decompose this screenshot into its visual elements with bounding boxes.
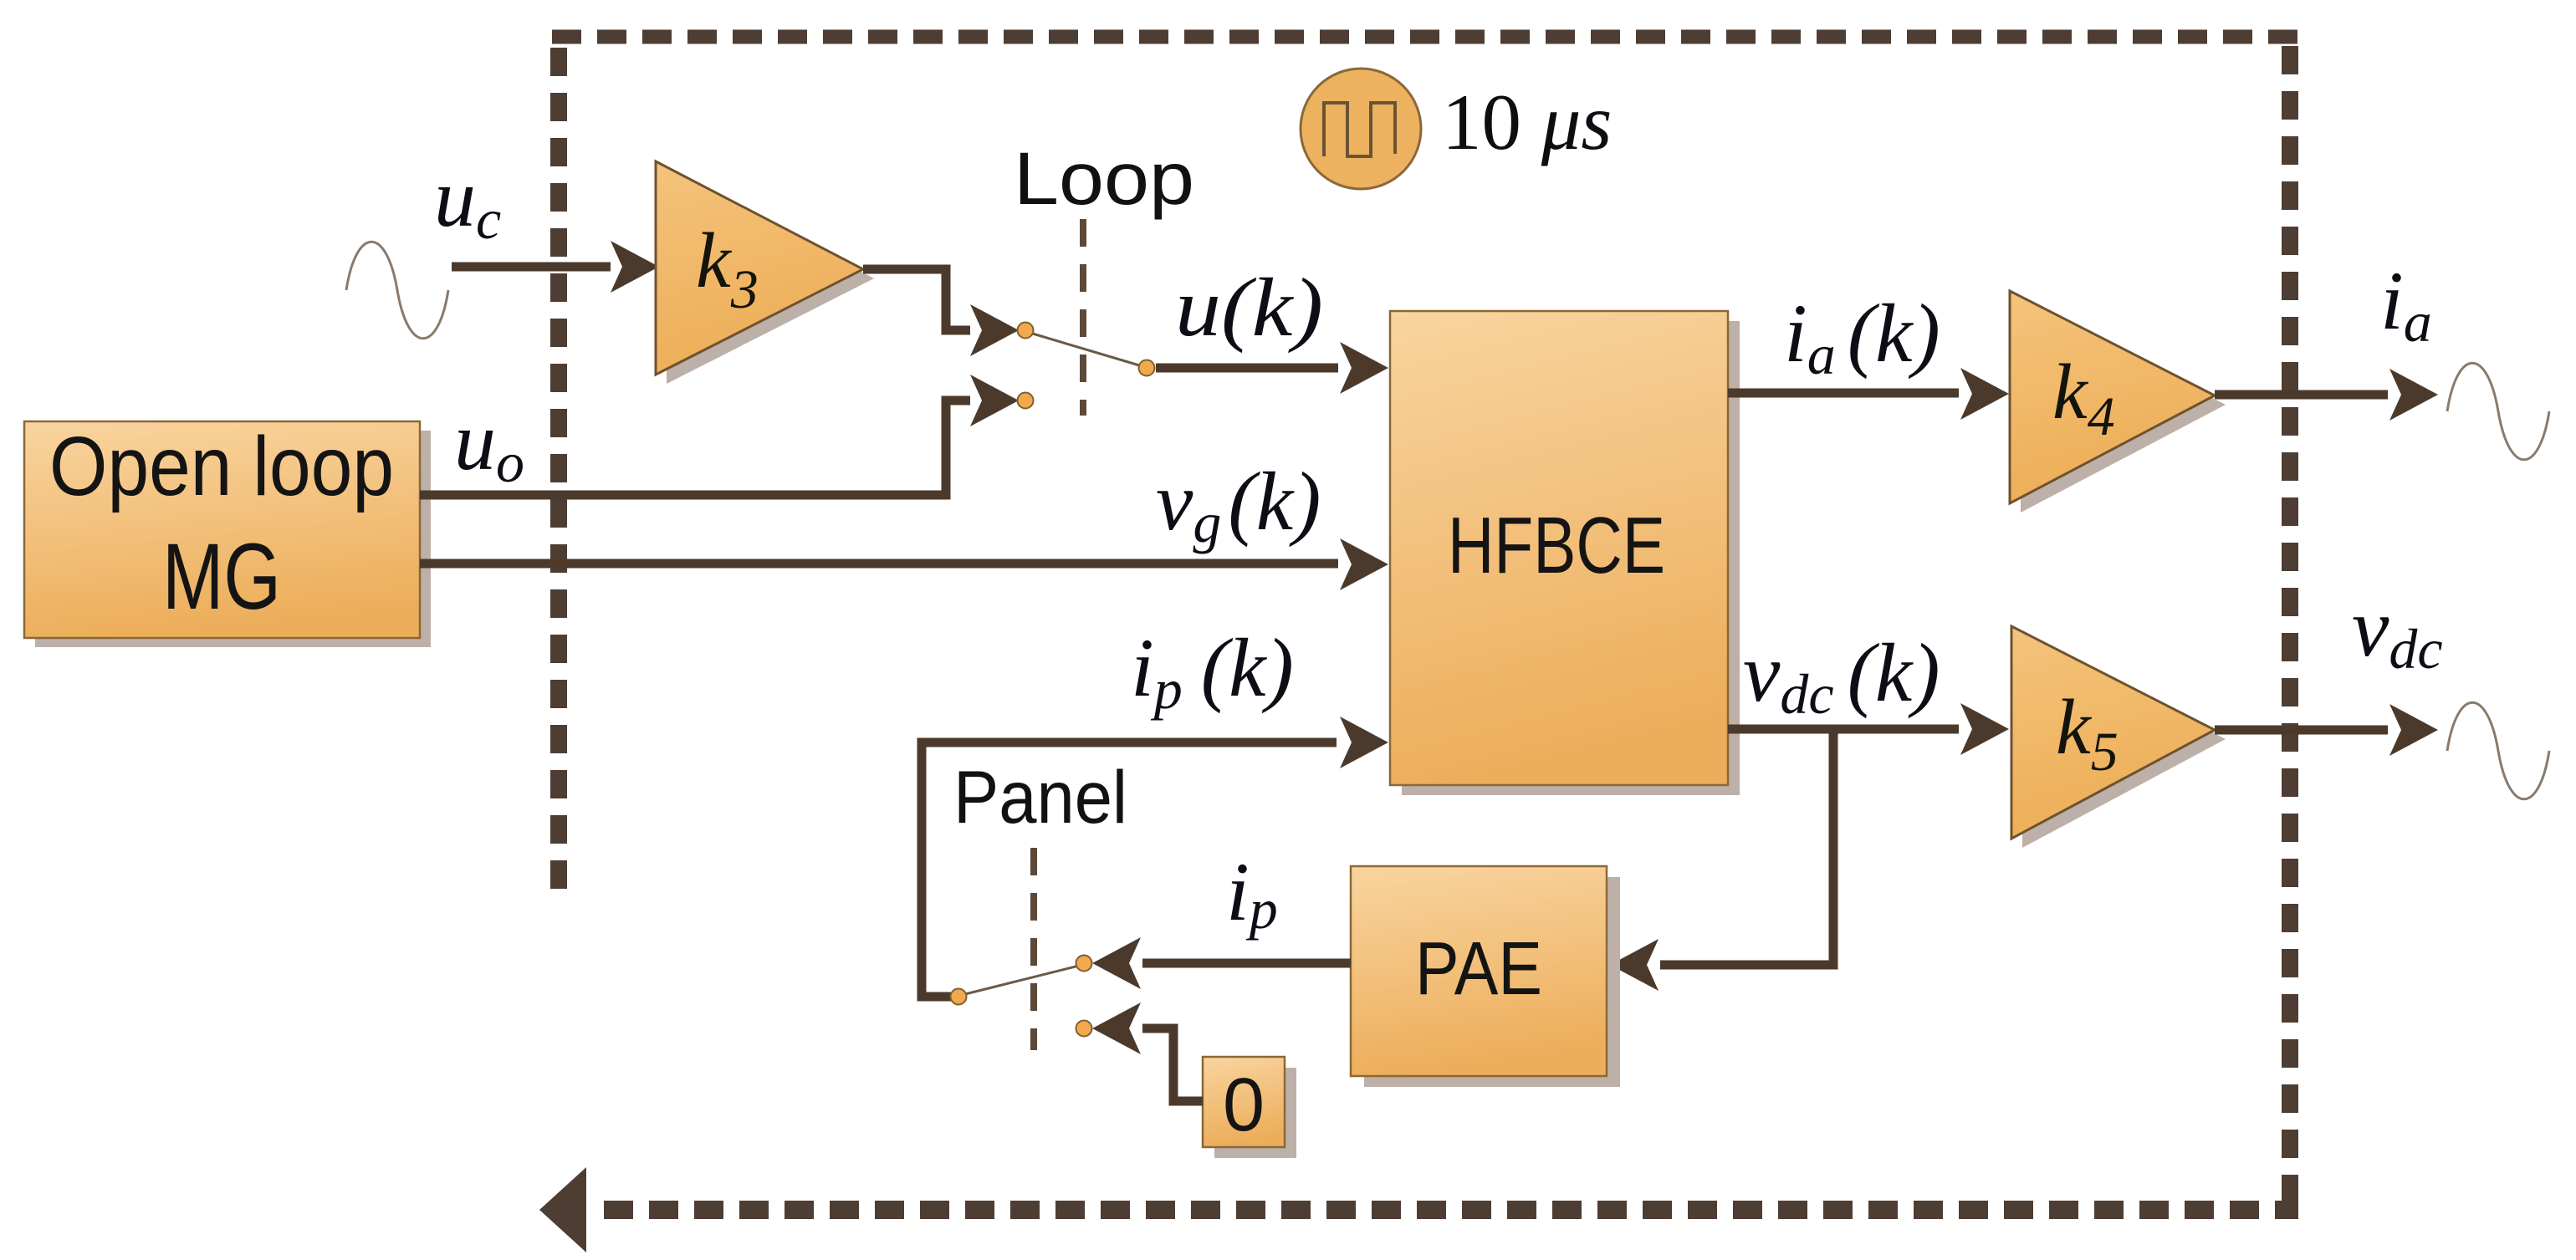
dashed digital-domain border (top edge) (552, 30, 2298, 44)
sine symbol at v_dc output (2447, 702, 2549, 799)
label Loop (1014, 136, 1194, 220)
Loop switch throw node (from k3) (1018, 323, 1034, 339)
label v_g(k) (1156, 455, 1321, 554)
wire v_dc(k) from HFBCE to k5 (1728, 703, 2009, 755)
label i_p (1226, 845, 1278, 941)
label v_dc (2352, 581, 2443, 681)
dashed digital-domain border (bottom edge, feedback) (594, 1201, 2298, 1219)
label u_c (434, 151, 501, 251)
wire i_a(k) from HFBCE to k4 (1728, 368, 2009, 420)
Loop switch common node (1139, 360, 1155, 376)
svg-text:uo: uo (454, 395, 524, 494)
label i_a(k) (1784, 287, 1940, 386)
svg-text:0: 0 (1223, 1064, 1265, 1147)
Loop switch blade (slanted) (1027, 332, 1145, 367)
label v_dc(k) (1743, 626, 1940, 726)
block HFBCE (1390, 311, 1740, 795)
svg-text:ip(k): ip(k) (1131, 621, 1294, 721)
wire v_g(k) from MG into HFBCE (420, 538, 1388, 590)
svg-text:ia(k): ia(k) (1784, 287, 1940, 386)
arrowhead of dashed feedback border (bottom-left, pointing left) (539, 1167, 586, 1252)
svg-text:uc: uc (434, 151, 501, 251)
label 10 us (1442, 78, 1612, 166)
block Open loop MG (24, 420, 431, 647)
label i_p(k) (1131, 621, 1294, 721)
wire i_p(k) from Panel switch common into HFBCE (922, 717, 1388, 997)
svg-text:vdc: vdc (2352, 581, 2443, 681)
Loop switch dashed divider (1080, 219, 1086, 416)
wire 0 to Panel switch lower throw (1092, 1002, 1203, 1101)
dashed digital-domain border (right edge) (2282, 46, 2298, 1210)
wire k3 output to Loop switch upper throw (863, 269, 1019, 356)
svg-text:Loop: Loop (1014, 136, 1194, 220)
label u_o (454, 395, 524, 494)
sine symbol at i_a output (2447, 363, 2549, 460)
wire v_dc(k) branch down into PAE (1610, 729, 1833, 991)
label u(k) (1175, 261, 1323, 354)
svg-text:vg(k): vg(k) (1156, 455, 1321, 554)
svg-text:MG: MG (162, 524, 281, 629)
wire u_c into k3 (452, 241, 659, 293)
clock symbol (sample-time circle) (1301, 69, 1421, 189)
wire u_o from MG up to Loop switch lower throw (420, 375, 1019, 495)
amplifier k3 (656, 161, 874, 384)
svg-text:Open loop: Open loop (49, 420, 394, 513)
amplifier k5 (2011, 626, 2226, 848)
sine symbol at u_c input (346, 242, 448, 339)
svg-text:ip: ip (1226, 845, 1278, 941)
svg-text:HFBCE: HFBCE (1448, 501, 1665, 590)
svg-text:Panel: Panel (953, 755, 1127, 839)
svg-text:ia: ia (2380, 254, 2432, 354)
svg-text:vdc(k): vdc(k) (1743, 626, 1940, 726)
amplifier k4 (2010, 291, 2226, 513)
label i_a (2380, 254, 2432, 354)
svg-text:10 μs: 10 μs (1442, 78, 1612, 166)
Panel switch throw node (i_p) (1076, 956, 1092, 972)
svg-text:PAE: PAE (1415, 927, 1542, 1011)
wire i_a output of k4 across border (2215, 369, 2438, 421)
wire u(k) into HFBCE (1156, 342, 1388, 394)
wire i_p from PAE to Panel switch upper throw (1092, 937, 1351, 989)
Loop switch throw node (from u_o) (1018, 393, 1034, 409)
wire v_dc output of k5 across border (2215, 704, 2438, 756)
svg-text:u(k): u(k) (1175, 261, 1323, 354)
block 0 (zero constant) (1203, 1057, 1296, 1158)
Panel switch common node (951, 989, 967, 1005)
block PAE (1351, 866, 1620, 1087)
Panel switch dashed divider (1030, 848, 1037, 1050)
Panel switch blade (slanted) (958, 965, 1082, 996)
dashed digital-domain border (left edge) (550, 48, 567, 903)
label Panel (953, 755, 1127, 839)
Panel switch throw node (zero) (1076, 1021, 1092, 1037)
